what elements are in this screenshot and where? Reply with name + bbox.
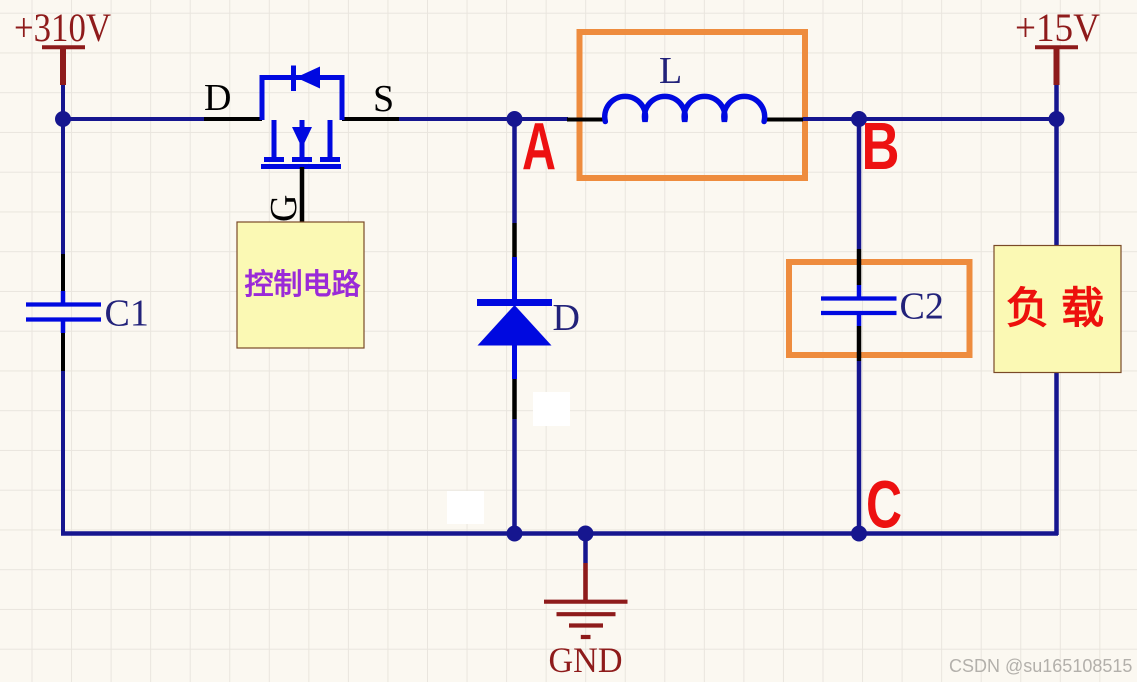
svg-text:负 载: 负 载 [1006,285,1104,333]
svg-text:C2: C2 [900,286,944,328]
svg-text:GND: GND [549,640,623,680]
svg-text:A: A [522,110,556,185]
svg-text:S: S [373,78,394,120]
svg-text:L: L [659,50,682,92]
svg-text:控制电路: 控制电路 [245,268,362,301]
svg-text:C1: C1 [105,293,149,335]
svg-text:D: D [204,77,231,119]
svg-text:+310V: +310V [14,5,111,50]
svg-text:D: D [553,297,580,339]
svg-text:B: B [862,109,900,184]
svg-text:G: G [263,195,305,222]
svg-text:C: C [866,468,902,543]
svg-text:CSDN @su165108515: CSDN @su165108515 [949,656,1132,676]
svg-text:+15V: +15V [1015,5,1100,50]
